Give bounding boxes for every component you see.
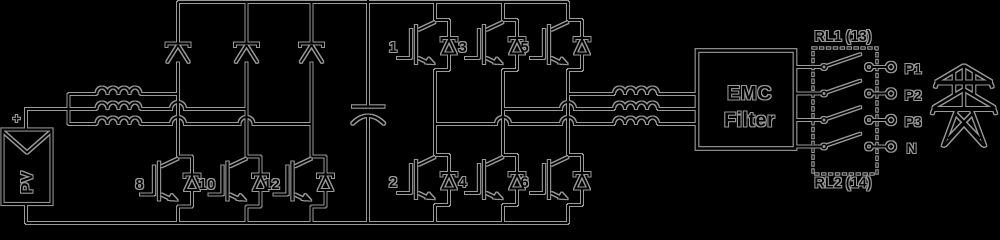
wire PV+ to bus [26, 109, 69, 130]
IGBT Q4 module [465, 155, 525, 205]
IGBT Q12 module [274, 157, 334, 207]
boost inductor L2 [97, 103, 141, 110]
boost leg C vertical middle [311, 63, 313, 157]
svg-text:EMC: EMC [727, 83, 772, 105]
IGBT Q8 module [140, 157, 200, 207]
boost diode D1 [167, 44, 190, 63]
IGBT Q3 module [465, 20, 525, 70]
svg-text:4: 4 [458, 174, 467, 191]
inverter leg 1/2 feed [434, 2, 436, 20]
boost leg C vertical lower [311, 207, 313, 224]
wire bus to boost coil row2 [69, 108, 97, 110]
svg-text:3: 3 [458, 39, 466, 56]
svg-text:P2: P2 [905, 87, 922, 103]
boost leg A vertical upper [177, 2, 179, 44]
IGBT Q2 module [397, 155, 457, 205]
svg-text:10: 10 [199, 176, 216, 193]
svg-text:PV: PV [17, 171, 36, 194]
wire coil row2 to EMC [658, 108, 697, 110]
EMC filter box [697, 51, 795, 149]
svg-text:RL1 (13): RL1 (13) [814, 29, 871, 45]
svg-text:2: 2 [389, 174, 397, 191]
svg-text:P3: P3 [905, 114, 922, 130]
plus terminal label [13, 115, 20, 122]
bottom DC- rail [26, 222, 568, 224]
DC link capacitor C1 [367, 0, 369, 107]
wire bus to boost coil row1 [69, 93, 97, 95]
inverter leg 5/6 middle [567, 70, 569, 155]
output inductor row2 [614, 103, 658, 110]
phase wire B from leg 3/4 midpoint with hop [503, 102, 614, 109]
output inductor row3 [614, 118, 658, 125]
wire coil3 to node C with hops over legs A and B [141, 117, 312, 124]
boost leg B vertical upper [246, 2, 248, 44]
phase wire C from leg 5/6 midpoint [568, 93, 614, 95]
output inductor row1 [614, 88, 658, 95]
PV chevron [3, 131, 52, 153]
wire coil1 to node A [141, 93, 179, 95]
top DC+ rail [178, 1, 568, 3]
boost diode D2 [235, 44, 258, 63]
relay switch row P3 [795, 107, 895, 124]
boost leg B vertical middle [246, 63, 248, 157]
boost leg C vertical upper [311, 2, 313, 44]
wire bus to boost coil row3 [69, 123, 97, 125]
inverter leg 1/2 lower [434, 205, 436, 223]
svg-text:5: 5 [520, 39, 528, 56]
svg-text:Filter: Filter [724, 110, 775, 132]
boost inductor L3 [97, 118, 141, 125]
boost leg B vertical lower [246, 207, 248, 224]
svg-text:RL2 (14): RL2 (14) [814, 176, 871, 192]
svg-text:12: 12 [263, 176, 280, 193]
svg-text:P1: P1 [905, 61, 922, 77]
wire coil row3 to EMC [658, 123, 697, 125]
IGBT Q10 module [209, 157, 269, 207]
relay switch row P1 [795, 54, 895, 71]
relay switch row N [795, 134, 895, 151]
inverter leg 3/4 middle [502, 70, 504, 155]
PV panel box [3, 130, 52, 205]
inverter leg 1/2 middle [434, 70, 436, 155]
IGBT Q6 module [530, 155, 590, 205]
svg-text:N: N [907, 140, 917, 156]
phase wire A from leg 1/2 midpoint with hops [435, 117, 614, 124]
inverter leg 5/6 feed [567, 2, 569, 20]
inverter leg 5/6 lower [567, 205, 569, 223]
wire coil2 to node B with hop over leg A [141, 102, 247, 109]
svg-text:6: 6 [520, 174, 528, 191]
left input bus [68, 94, 70, 124]
boost leg A vertical middle [177, 63, 179, 157]
wire PV- to bottom rail [25, 204, 27, 223]
grid pylon icon [932, 66, 996, 147]
wire coil row1 to EMC [658, 93, 697, 95]
svg-text:1: 1 [389, 39, 397, 56]
inverter leg 3/4 lower [502, 205, 504, 223]
IGBT Q5 module [530, 20, 590, 70]
boost leg A vertical lower [177, 207, 179, 224]
boost inductor L1 [97, 88, 141, 95]
IGBT Q1 module [397, 20, 457, 70]
relay switch row P2 [795, 81, 895, 98]
svg-text:8: 8 [135, 176, 143, 193]
boost diode D3 [300, 44, 323, 63]
inverter leg 3/4 feed [502, 2, 504, 20]
relay dashed box [813, 48, 877, 174]
